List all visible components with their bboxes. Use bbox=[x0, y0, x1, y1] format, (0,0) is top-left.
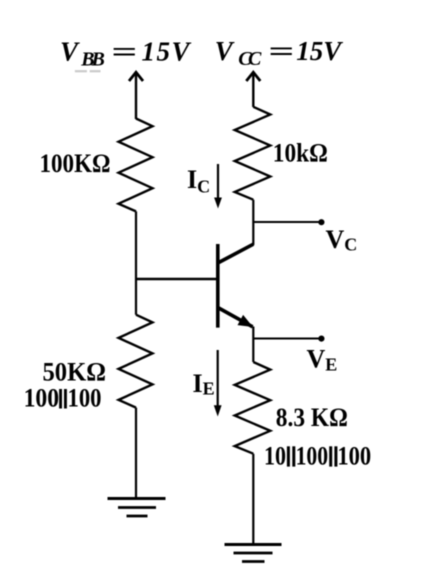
svg-text:VE: VE bbox=[307, 345, 338, 375]
svg-text:100: 100 bbox=[296, 442, 329, 471]
wire base bbox=[136, 278, 218, 280]
svg-text:10kΩ: 10kΩ bbox=[273, 138, 328, 167]
svg-text:100: 100 bbox=[68, 384, 102, 413]
wire emitter to VE node bbox=[253, 338, 321, 340]
R4 value 10||100||100 bbox=[264, 442, 371, 471]
node VE dot bbox=[318, 336, 324, 342]
ground right bbox=[225, 545, 282, 562]
transistor Q1 collector lead bbox=[218, 244, 254, 263]
VCC source arrow bbox=[246, 72, 260, 107]
resistor R4 8.3K bbox=[235, 362, 271, 454]
svg-text:100: 100 bbox=[337, 442, 371, 471]
svg-text:IE: IE bbox=[193, 369, 215, 399]
artifact dashes under BB bbox=[75, 70, 101, 72]
node VC dot bbox=[318, 219, 324, 225]
resistor R1 100K bbox=[119, 119, 153, 212]
ground left bbox=[108, 499, 166, 517]
wire R1 to base node bbox=[135, 211, 137, 314]
transistor Q1 base bar bbox=[216, 244, 220, 328]
R2 value 100||100 bbox=[24, 384, 102, 413]
VBB source arrow bbox=[129, 72, 143, 119]
svg-text:VBB=15V: VBB=15V bbox=[60, 37, 191, 71]
resistor R3 10k bbox=[235, 107, 271, 200]
svg-text:IC: IC bbox=[187, 165, 210, 197]
wire R4 to ground bbox=[252, 454, 254, 545]
current IC arrow bbox=[214, 164, 222, 209]
svg-text:8.3 KΩ: 8.3 KΩ bbox=[276, 403, 348, 432]
svg-text:VCC=15V: VCC=15V bbox=[215, 36, 343, 70]
wire emitter to R4 bbox=[252, 327, 254, 363]
wire R3 to collector bbox=[252, 200, 254, 245]
resistor R2 50K bbox=[119, 315, 153, 408]
svg-text:50KΩ: 50KΩ bbox=[43, 357, 107, 386]
svg-text:VC: VC bbox=[326, 225, 358, 255]
wire collector to VC node bbox=[253, 221, 321, 223]
wire R2 to ground bbox=[135, 408, 137, 499]
svg-text:100KΩ: 100KΩ bbox=[40, 149, 111, 178]
svg-text:100: 100 bbox=[24, 384, 60, 413]
current IE arrow bbox=[214, 350, 222, 417]
transistor Q1 emitter lead bbox=[218, 308, 253, 328]
svg-text:10: 10 bbox=[264, 442, 286, 471]
